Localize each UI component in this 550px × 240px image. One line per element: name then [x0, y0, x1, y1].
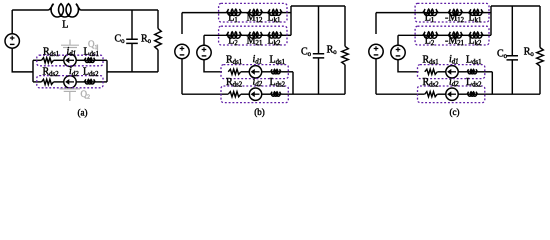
wire: (c) source2 upper lead: [397, 35, 399, 45]
resistor Rds2 (b): [228, 92, 241, 97]
inductor M12 (b): [248, 9, 263, 15]
capacitor Co (a): [126, 39, 138, 43]
current source id2 (a): [64, 76, 76, 88]
inductor Lds1 (c): [467, 69, 478, 73]
current source id1 (b): [249, 66, 261, 78]
wire: (c) row1 link2: [463, 12, 469, 14]
resistor Ro (b): [342, 46, 349, 64]
wire: (b) right bar rows1-2: [290, 6, 292, 35]
voltage source V1 (c): [369, 44, 383, 58]
wire: (b) source2 lower lead into row3: [204, 60, 222, 72]
inductor Lk1 (c): [469, 9, 484, 15]
inductor Lk2 (b): [268, 32, 283, 38]
wire: (b) source2 upper lead: [203, 35, 205, 45]
inductor Lds1 (a): [84, 58, 96, 63]
wire: (b) row3 source-to-L: [262, 71, 271, 73]
wire: (c) right bar rows1-2: [490, 6, 492, 35]
resistor Rds2 (a): [42, 79, 54, 84]
voltage source V2 (b): [197, 45, 211, 59]
current source id2 (c): [446, 88, 458, 100]
wire: branch1 source-to-L: [76, 59, 84, 61]
wire: (b) Ro top lead: [344, 6, 346, 46]
wire: (b) bottom rail right: [281, 93, 345, 95]
wire: (a) Ro top lead: [157, 10, 159, 29]
wire: (c) left rail lower: [375, 59, 377, 94]
wire: branch1 R-to-source: [54, 59, 64, 61]
svg-text:L: L: [62, 20, 68, 31]
wire: (c) row3 source-to-L: [458, 71, 467, 73]
wire: (b) row1 lead-in: [182, 12, 226, 14]
inductor L1 (b): [226, 9, 242, 16]
wire: (c) row2 lead-out: [484, 34, 492, 36]
wire: (b) row2 lead-in: [204, 34, 226, 36]
wire: (b) bottom rail left: [182, 93, 228, 95]
capacitor Co (b): [313, 54, 324, 58]
wire: (c) Co top lead: [511, 6, 513, 56]
wire: (b) Co bottom lead: [318, 58, 320, 94]
inductor Lk2 (c): [469, 32, 484, 38]
inductor Lds2 (a): [84, 79, 96, 84]
wire: (a) left rail upper: [11, 10, 13, 34]
wire: branch1 lead-out: [96, 59, 108, 61]
wire: (a) top rail left segment: [12, 9, 48, 11]
wire: (c) row4 source-to-L: [458, 93, 467, 95]
dashed box row1 (c): [415, 3, 489, 22]
resistor Rds1 (a): [42, 58, 54, 63]
inductor -M12 (c): [448, 9, 463, 15]
capacitor Co (c): [507, 56, 519, 60]
current source id2 (b): [249, 88, 261, 100]
dashed box around Rds2/id2/Lds2 (a): [37, 76, 103, 88]
wire: (c) row1 link1: [439, 12, 449, 14]
wire: (b) row3 R-to-source: [241, 71, 250, 73]
wire: (a) Co bottom lead: [131, 44, 133, 72]
dashed box row2 (b): [219, 26, 287, 45]
wire: (b) left rail upper: [181, 13, 183, 34]
wire: (b) left rail lower: [181, 59, 183, 94]
dashed box Rds1 branch (c): [418, 65, 485, 79]
inductor Lk1 (b): [268, 9, 283, 15]
resistor Ro (c): [537, 48, 544, 67]
wire: (b) row3 lead-out: [281, 71, 293, 73]
wire: (c) top rail to load: [491, 5, 540, 7]
ghost transistor Q2 (gray): [60, 89, 80, 101]
wire: (c) row3 lead-out: [478, 71, 493, 73]
dashed box row1 (b): [219, 3, 287, 22]
wire: (b) top rail to load: [291, 5, 345, 7]
wire: (b) row4 R-to-source: [241, 93, 250, 95]
wire: (b) row2 link1: [242, 34, 248, 36]
wire: (c) row4 R-to-source: [437, 93, 446, 95]
wire: (c) Co bottom lead: [511, 60, 513, 94]
svg-text:(c): (c): [450, 107, 460, 117]
wire: (c) bottom rail right: [478, 93, 540, 95]
wire: branch2 lead-in: [33, 81, 42, 83]
voltage source V2 (c): [391, 45, 405, 59]
current source id1 (a): [64, 54, 76, 66]
inductor L: [49, 4, 81, 17]
dashed box Rds1 branch (b): [221, 65, 288, 79]
svg-text:(a): (a): [78, 108, 88, 118]
inductor L2 (b): [226, 32, 242, 39]
wire: (c) source2 lower lead into row3: [398, 60, 419, 72]
wire: (c) Ro top lead: [539, 6, 541, 48]
inductor -M21 (c): [448, 32, 463, 38]
resistor Rds2 (c): [425, 92, 438, 97]
voltage source V1 (b): [175, 44, 189, 58]
resistor Rds1 (b): [228, 69, 241, 74]
wire: (a) right junction bar: [106, 60, 108, 82]
wire: branch2 R-to-source: [54, 81, 64, 83]
wire: (a) left rail lower + mid rail left: [12, 48, 33, 72]
dashed box around Rds1/id1/Lds1 (a): [37, 55, 103, 66]
wire: (a) top rail right segment: [81, 9, 159, 11]
inductor Lds2 (c): [467, 92, 478, 96]
wire: (c) left rail upper: [375, 13, 377, 34]
wire: (c) row2 link1: [439, 34, 449, 36]
wire: (b) row1 link1: [242, 12, 248, 14]
wire: (b) row4 source-to-L: [262, 93, 271, 95]
inductor L1 (c): [423, 9, 439, 16]
inductor Lds1 (b): [270, 69, 281, 73]
wire: (c) right bar row3-bottom: [491, 72, 493, 94]
wire: branch2 lead-out: [96, 81, 108, 83]
wire: (b) Ro bottom lead: [344, 65, 346, 95]
wire: (c) row1 lead-out: [484, 12, 492, 14]
wire: (c) row1 lead-in: [376, 12, 423, 14]
wire: branch2 source-to-L: [76, 81, 84, 83]
ghost transistor Q1 (gray): [61, 40, 98, 51]
wire: (b) right bar row3-bottom: [292, 72, 294, 94]
resistor Ro (a): [155, 29, 162, 50]
resistor Rds1 (c): [425, 69, 438, 74]
wire: (a) left junction bar: [32, 60, 34, 82]
wire: (c) Ro bottom lead: [539, 66, 541, 94]
wire: (c) row2 link2: [463, 34, 469, 36]
inductor Lds2 (b): [270, 92, 281, 96]
wire: (a) Co top lead: [131, 10, 133, 39]
svg-text:(b): (b): [254, 107, 265, 117]
wire: (c) bottom rail left: [376, 93, 425, 95]
voltage source Vin (a): [5, 34, 19, 48]
wire: (b) row1 lead-out: [283, 12, 292, 14]
wire: (b) row2 lead-out: [283, 34, 292, 36]
wire: (c) row2 lead-in: [398, 34, 423, 36]
wire: (c) row3 R-to-source: [437, 71, 446, 73]
inductor M21 (b): [248, 32, 263, 38]
wire: (a) mid rail right: [107, 71, 158, 73]
wire: (b) row1 link2: [263, 12, 268, 14]
dashed box row2 (c): [415, 26, 489, 45]
wire: (b) row2 link2: [263, 34, 268, 36]
wire: branch1 lead-in: [33, 59, 42, 61]
wire: (a) Ro bottom lead: [157, 50, 159, 72]
wire: (b) Co top lead: [318, 6, 320, 54]
dashed box Rds2 branch (b): [221, 86, 288, 103]
current source id1 (c): [446, 66, 458, 78]
inductor L2 (c): [423, 32, 439, 39]
dashed box Rds2 branch (c): [418, 86, 485, 103]
